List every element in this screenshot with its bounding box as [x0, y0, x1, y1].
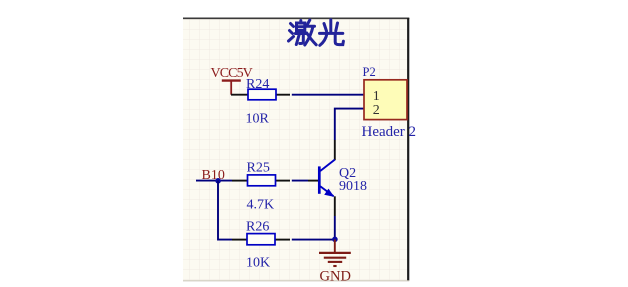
- svg-text:9018: 9018: [339, 179, 367, 194]
- transistor Q2 base pin: [308, 180, 319, 182]
- svg-text:10R: 10R: [246, 112, 270, 127]
- transistor Q2 collector pin: [334, 140, 336, 160]
- resistor R24 body: [248, 89, 276, 100]
- junction dot at B10: [215, 178, 221, 184]
- resistor R25 pin 1 lead: [232, 180, 248, 182]
- power bar symbol VCC5V: [222, 81, 241, 95]
- svg-text:10K: 10K: [246, 256, 270, 271]
- wire P2 pin 2 to Q2 collector: [335, 109, 364, 140]
- resistor R26 pin 2 lead: [275, 239, 290, 241]
- svg-text:1: 1: [373, 89, 380, 104]
- wire R24 to P2 pin 1: [292, 94, 364, 96]
- wire emitter to GND junction: [334, 216, 336, 240]
- svg-text:2: 2: [373, 103, 380, 118]
- wire R25 to Q2 base: [292, 180, 308, 182]
- resistor R25 body: [248, 175, 276, 186]
- ground: [319, 240, 351, 267]
- resistor R26 pin 1 lead: [232, 239, 248, 241]
- title 激光: [289, 20, 344, 46]
- wire B10 to R25: [196, 180, 232, 182]
- resistor R26 body: [247, 234, 275, 245]
- resistor R24 pin 1 lead: [231, 94, 249, 96]
- svg-text:4.7K: 4.7K: [247, 198, 275, 213]
- sheet top border: [183, 17, 409, 19]
- wire B10 down to R26 row: [218, 181, 232, 240]
- resistor R25 pin 2 lead: [275, 180, 290, 182]
- svg-text:GND: GND: [320, 269, 351, 285]
- wire R26 to emitter junction: [292, 239, 335, 241]
- 激 : water radical: [289, 24, 294, 42]
- svg-text:R26: R26: [246, 220, 269, 235]
- sheet bottom border: [183, 280, 409, 282]
- 激 : right 攵: [305, 20, 316, 45]
- transistor Q2: [319, 160, 335, 197]
- 激 : middle 白/方: [297, 21, 305, 31]
- sheet background: [183, 19, 409, 281]
- junction dot at emitter/R26/GND: [332, 237, 338, 243]
- svg-text:R24: R24: [246, 77, 269, 92]
- 光: [320, 20, 344, 46]
- svg-text:P2: P2: [363, 65, 376, 79]
- resistor R24 pin 2 lead: [276, 94, 290, 96]
- connector P2 box: [364, 80, 407, 120]
- sheet right border: [407, 18, 409, 281]
- transistor Q2 emitter pin: [334, 196, 336, 216]
- svg-text:Header 2: Header 2: [362, 124, 417, 140]
- svg-text:R25: R25: [247, 161, 270, 176]
